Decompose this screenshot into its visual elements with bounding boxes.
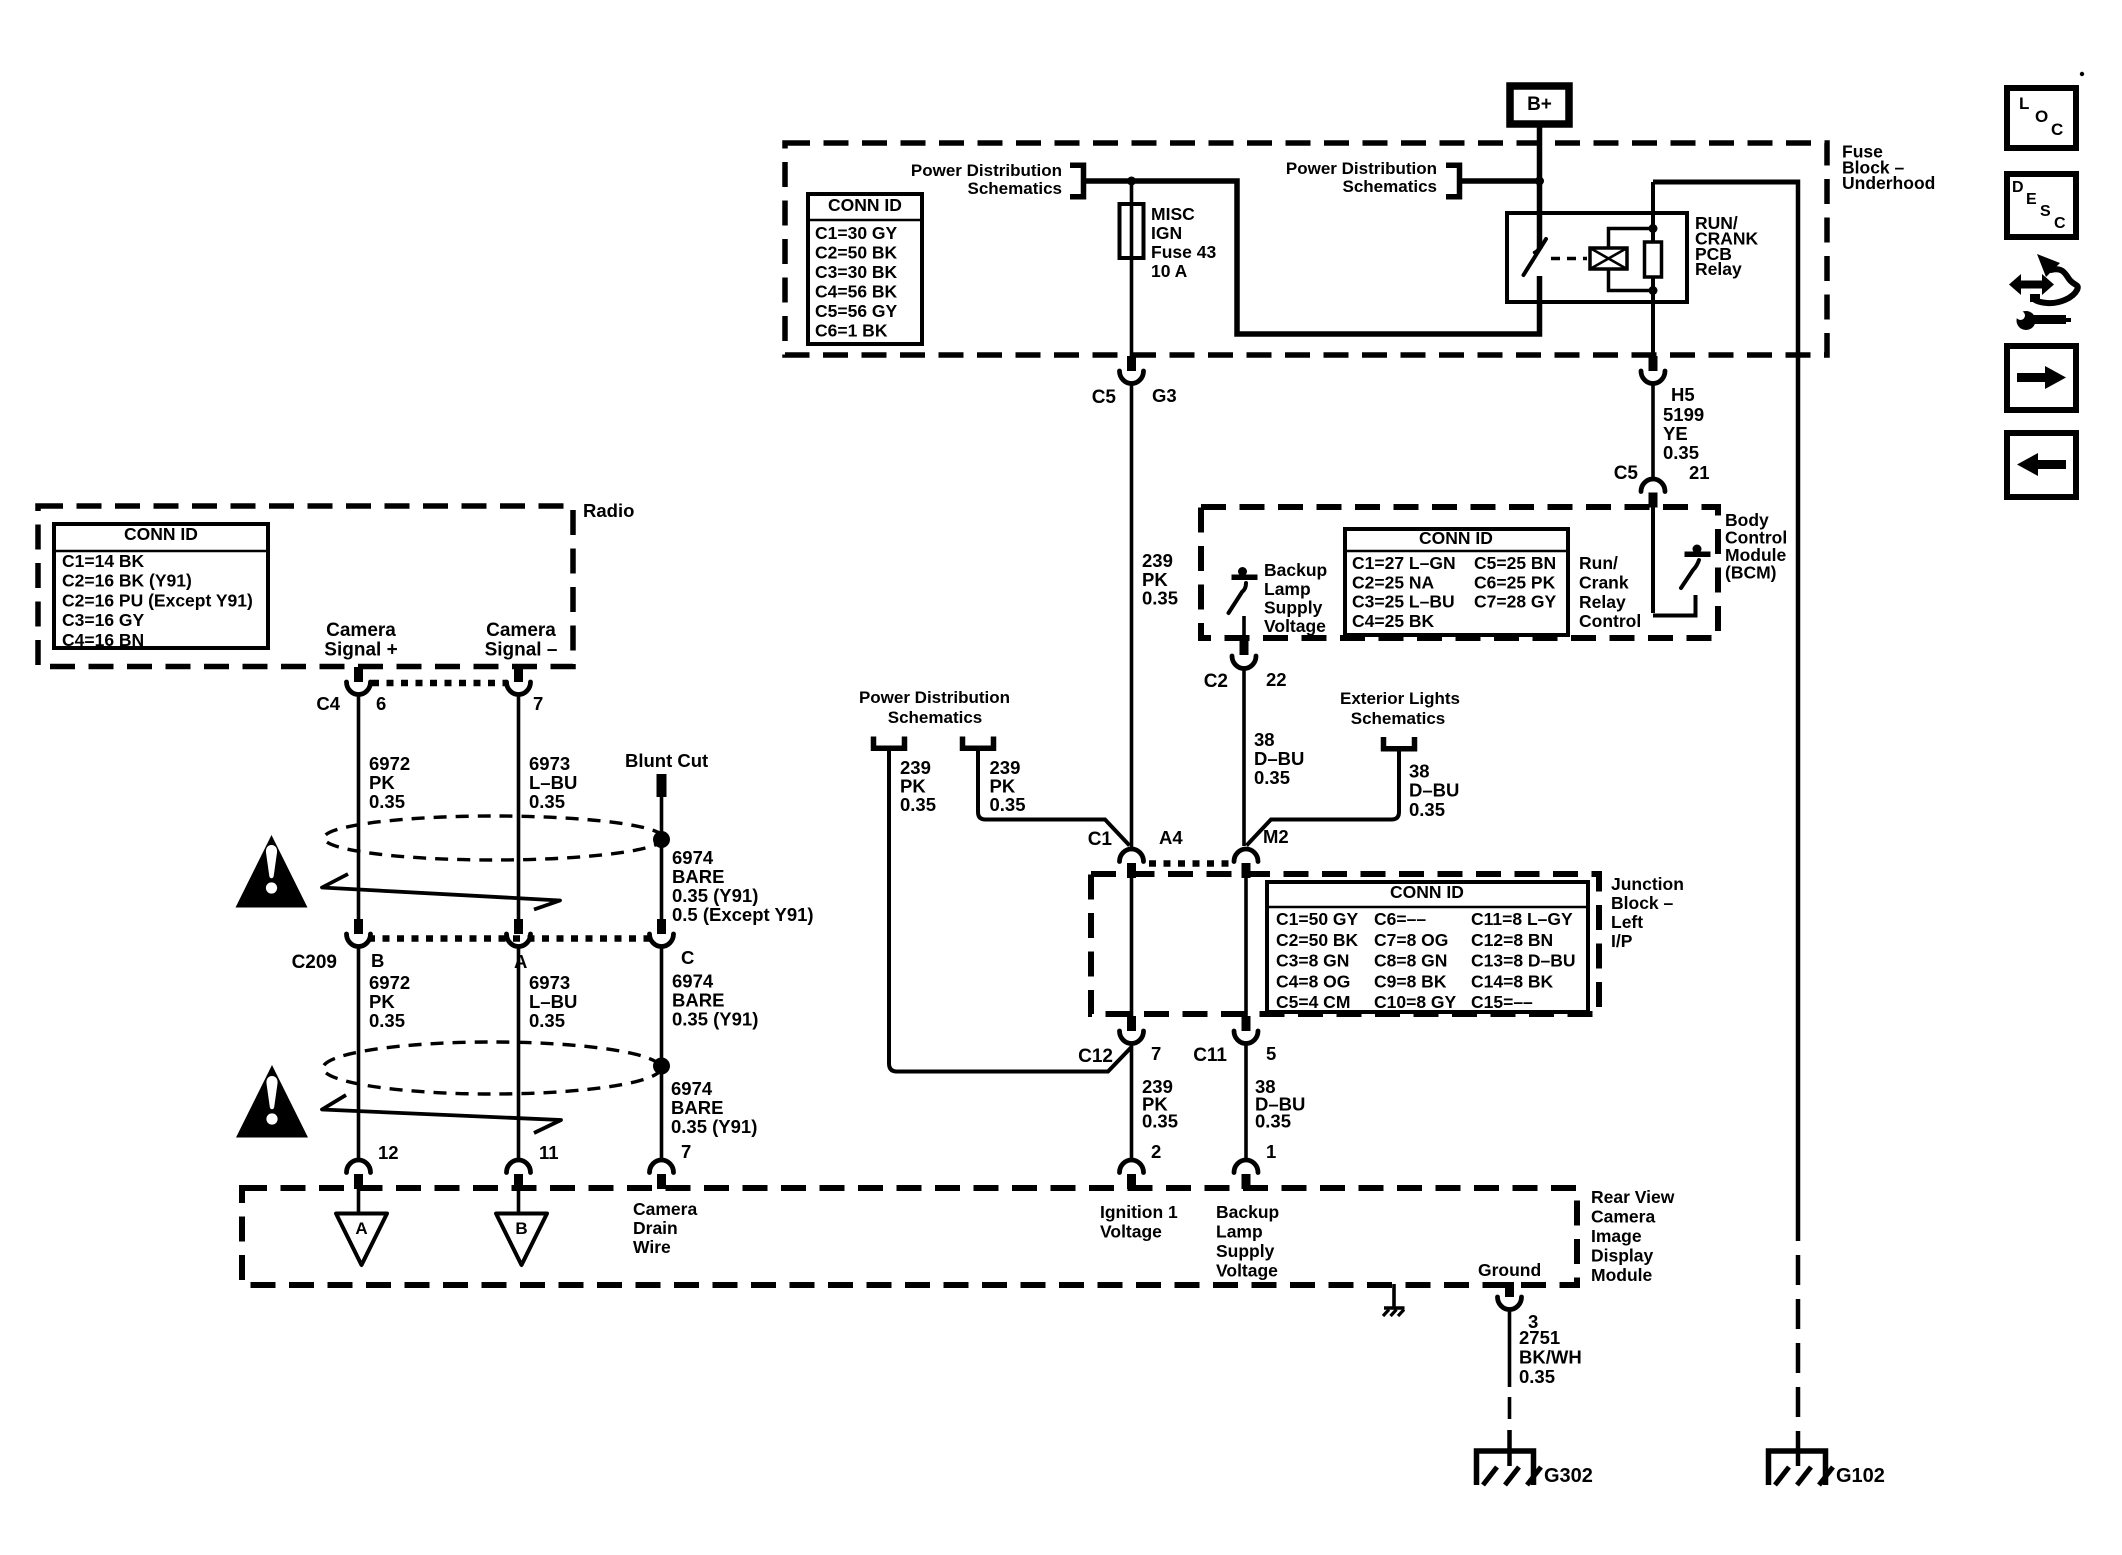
svg-text:L–BU: L–BU [529, 772, 577, 793]
component box Rear View Camera Image Display Module [242, 1188, 1577, 1285]
connector C11 5 (junction block to harness) [1193, 1016, 1276, 1066]
svg-text:C2=16 BK (Y91): C2=16 BK (Y91) [62, 571, 192, 591]
svg-text:G302: G302 [1544, 1465, 1593, 1487]
svg-text:C1=27 L–GN: C1=27 L–GN [1352, 553, 1456, 573]
svg-text:C2=25 NA: C2=25 NA [1352, 572, 1435, 592]
svg-text:C4: C4 [316, 693, 340, 714]
BCM run/crank relay control input terminal [1653, 507, 1696, 616]
svg-text:D–BU: D–BU [1254, 748, 1304, 769]
svg-text:PK: PK [369, 772, 395, 793]
svg-text:0.35 (Y91): 0.35 (Y91) [672, 885, 758, 906]
svg-text:Signal +: Signal + [324, 640, 397, 661]
wire 38 D-BU 0.35 backup lamp supply to display module [1246, 1043, 1305, 1162]
svg-text:Underhood: Underhood [1842, 173, 1935, 193]
svg-text:Power Distribution: Power Distribution [859, 688, 1010, 707]
twist arrow (upper) [322, 874, 560, 910]
svg-text:Voltage: Voltage [1264, 616, 1326, 636]
svg-text:11: 11 [539, 1142, 559, 1163]
svg-text:10 A: 10 A [1151, 261, 1188, 281]
svg-text:38: 38 [1254, 729, 1275, 750]
wire junction block A4 to C12 [1130, 874, 1134, 1018]
svg-text:Crank: Crank [1579, 573, 1629, 593]
svg-text:Wire: Wire [633, 1237, 671, 1257]
svg-text:C: C [681, 947, 694, 968]
svg-text:Display: Display [1591, 1246, 1654, 1266]
icon button LOC [2007, 88, 2076, 148]
ground G102 [1769, 1436, 1885, 1487]
svg-text:CONN ID: CONN ID [828, 195, 902, 215]
svg-text:Image: Image [1591, 1226, 1642, 1246]
shield ellipse (lower twisted pair) [323, 1042, 661, 1094]
svg-text:C7=8 OG: C7=8 OG [1374, 930, 1448, 950]
svg-text:7: 7 [533, 693, 543, 714]
wire 239 PK 0.35 ignition 1 voltage to display module [1132, 1043, 1179, 1162]
dotted connector body line C1-M2 [1149, 860, 1229, 867]
wire 5199 YE 0.35 run/crank relay control [1653, 383, 1704, 480]
svg-text:Module: Module [1591, 1265, 1653, 1285]
node triangle A [336, 1214, 387, 1266]
component box Radio [38, 506, 573, 667]
off-page reference Exterior Lights Schematics [1340, 689, 1460, 749]
warning triangle (upper) [236, 835, 308, 908]
svg-text:C1: C1 [1088, 829, 1113, 850]
svg-text:MISC: MISC [1151, 204, 1195, 224]
wire to triangle B [517, 1189, 521, 1214]
blunt cut drain wire stub [625, 750, 708, 797]
svg-text:C2=50 BK: C2=50 BK [815, 243, 898, 263]
svg-text:0.35: 0.35 [529, 1010, 565, 1031]
svg-text:C2: C2 [1204, 671, 1228, 692]
junction drain to shield (lower) [653, 1058, 670, 1075]
label backup lamp supply voltage [1216, 1202, 1279, 1281]
svg-text:C11=8 L–GY: C11=8 L–GY [1471, 909, 1573, 929]
svg-text:6974: 6974 [672, 971, 714, 992]
svg-text:C5=4 CM: C5=4 CM [1276, 992, 1350, 1012]
svg-text:C5: C5 [1614, 463, 1639, 484]
svg-text:Camera: Camera [326, 620, 396, 641]
svg-text:6973: 6973 [529, 972, 570, 993]
svg-text:C6=25 PK: C6=25 PK [1474, 572, 1556, 592]
svg-text:C13=8 D–BU: C13=8 D–BU [1471, 951, 1576, 971]
wire 239 PK 0.35 to connector C1 A4 [978, 749, 1130, 846]
twist arrow (lower) [322, 1095, 561, 1133]
svg-text:Power Distribution: Power Distribution [911, 161, 1062, 180]
svg-text:Camera: Camera [1591, 1207, 1655, 1227]
off-page reference Power Distribution Schematics (left) [911, 161, 1084, 198]
svg-text:0.35: 0.35 [1142, 588, 1178, 609]
svg-text:Voltage: Voltage [1216, 1261, 1278, 1281]
svg-text:A: A [355, 1219, 367, 1238]
svg-text:Left: Left [1611, 912, 1643, 932]
svg-text:C6=1 BK: C6=1 BK [815, 321, 888, 341]
conn id table of BCM [1345, 528, 1568, 635]
svg-text:C2=16 PU (Except Y91): C2=16 PU (Except Y91) [62, 590, 253, 610]
wire 6973 L-BU 0.35 camera signal - (lower) [519, 946, 578, 1161]
svg-text:Lamp: Lamp [1216, 1222, 1263, 1242]
svg-text:5: 5 [1266, 1043, 1276, 1064]
svg-text:B: B [515, 1219, 527, 1238]
svg-text:7: 7 [681, 1141, 691, 1162]
svg-text:Voltage: Voltage [1100, 1222, 1162, 1242]
svg-text:6973: 6973 [529, 753, 570, 774]
ground G302 [1477, 1451, 1593, 1487]
wire 6974 BARE drain (upper) [662, 797, 814, 925]
icon repair info (wrench and arrows) [2009, 254, 2078, 330]
svg-text:S: S [2040, 203, 2051, 220]
warning triangle (lower) [236, 1065, 308, 1138]
wire 6973 L-BU 0.35 camera signal - (upper) [519, 694, 578, 921]
label ignition 1 voltage [1100, 1202, 1178, 1242]
svg-text:Ground: Ground [1478, 1260, 1541, 1280]
svg-text:Ignition 1: Ignition 1 [1100, 1202, 1178, 1222]
svg-text:0.35: 0.35 [1142, 1111, 1178, 1132]
svg-text:L–BU: L–BU [529, 991, 577, 1012]
wire right-side bus down to G102 [1796, 180, 1801, 1242]
svg-text:Fuse 43: Fuse 43 [1151, 242, 1216, 262]
connector pin 11 (harness to display module) [507, 1142, 559, 1189]
wire 38 D-BU 0.35 backup lamp supply [1244, 668, 1304, 846]
svg-text:0.35: 0.35 [1663, 442, 1699, 463]
svg-text:Relay: Relay [1579, 592, 1626, 612]
conn id table of junction block [1267, 882, 1588, 1012]
svg-text:Radio: Radio [583, 500, 634, 521]
svg-text:C1=14 BK: C1=14 BK [62, 551, 145, 571]
svg-text:I/P: I/P [1611, 931, 1633, 951]
junction node B+ / run-crank feed [1535, 177, 1544, 186]
icon button forward arrow [2007, 346, 2076, 410]
component box Junction Block - Left I/P [1091, 874, 1599, 1014]
svg-text:C3=25 L–BU: C3=25 L–BU [1352, 592, 1455, 612]
svg-text:BARE: BARE [672, 866, 724, 887]
dotted connector body line C4 [372, 680, 506, 687]
svg-text:C4=8 OG: C4=8 OG [1276, 971, 1350, 991]
svg-text:7: 7 [1151, 1043, 1161, 1064]
svg-text:1: 1 [1266, 1141, 1276, 1162]
svg-text:BK/WH: BK/WH [1519, 1347, 1582, 1368]
svg-text:0.35 (Y91): 0.35 (Y91) [672, 1009, 758, 1030]
svg-text:12: 12 [378, 1142, 399, 1163]
connector H5 (fuse block to harness) [1641, 356, 1695, 405]
svg-text:6974: 6974 [672, 847, 714, 868]
wire 239 PK 0.35 to junction block C12 [889, 749, 1132, 1072]
svg-text:Relay: Relay [1695, 259, 1742, 279]
svg-text:Junction: Junction [1611, 874, 1684, 894]
svg-text:Exterior Lights: Exterior Lights [1340, 689, 1460, 708]
connector C209 C (inline) [650, 919, 695, 968]
connector pin 3 ground (display module to harness) [1498, 1282, 1539, 1332]
svg-text:C1=30 GY: C1=30 GY [815, 223, 898, 243]
svg-text:C14=8 BK: C14=8 BK [1471, 971, 1554, 991]
svg-text:G3: G3 [1152, 385, 1177, 406]
svg-text:Schematics: Schematics [968, 179, 1063, 198]
svg-text:C4=56 BK: C4=56 BK [815, 282, 898, 302]
wire 6972 PK 0.35 camera signal + (lower) [359, 946, 411, 1161]
svg-text:C4=16 BN: C4=16 BN [62, 630, 144, 650]
svg-text:6972: 6972 [369, 753, 410, 774]
wire fuse feed bus from left reference to relay switch [1084, 181, 1540, 334]
connector C209 B (inline) [292, 919, 385, 973]
svg-text:A: A [514, 951, 527, 972]
svg-text:239: 239 [1142, 550, 1173, 571]
svg-text:B+: B+ [1527, 94, 1552, 115]
wire from right reference to B+ node [1460, 178, 1540, 184]
svg-text:C8=8 GN: C8=8 GN [1374, 951, 1447, 971]
svg-text:Rear View: Rear View [1591, 1187, 1675, 1207]
svg-text:C6=––: C6=–– [1374, 909, 1426, 929]
svg-text:C: C [2051, 120, 2063, 139]
svg-text:2: 2 [1151, 1141, 1161, 1162]
shield ellipse (upper twisted pair) [324, 816, 664, 860]
svg-text:Power Distribution: Power Distribution [1286, 159, 1437, 178]
svg-text:C15=––: C15=–– [1471, 992, 1533, 1012]
svg-text:Camera: Camera [633, 1199, 697, 1219]
svg-text:C3=30 BK: C3=30 BK [815, 262, 898, 282]
svg-text:Drain: Drain [633, 1218, 678, 1238]
svg-text:Backup: Backup [1216, 1202, 1279, 1222]
connector C5 G3 (fuse block to harness) [1092, 356, 1177, 408]
svg-text:H5: H5 [1671, 384, 1695, 405]
svg-text:Supply: Supply [1216, 1241, 1275, 1261]
svg-text:2751: 2751 [1519, 1327, 1560, 1348]
icon button DESC [2007, 174, 2076, 237]
dotted connector body line C209 [368, 935, 651, 942]
svg-text:Schematics: Schematics [1351, 709, 1446, 728]
svg-text:Supply: Supply [1264, 598, 1323, 618]
BCM run/crank switch driver [1681, 545, 1711, 589]
svg-text:C3=16 GY: C3=16 GY [62, 610, 145, 630]
svg-text:Lamp: Lamp [1264, 579, 1311, 599]
svg-text:21: 21 [1689, 462, 1710, 483]
svg-text:E: E [2026, 191, 2037, 208]
svg-text:(BCM): (BCM) [1725, 563, 1777, 583]
svg-text:A4: A4 [1159, 827, 1183, 848]
svg-text:0.35: 0.35 [900, 794, 936, 815]
label camera drain wire [633, 1199, 697, 1257]
svg-text:BARE: BARE [671, 1097, 723, 1118]
connector C209 A (inline) [507, 919, 531, 972]
svg-text:6972: 6972 [369, 972, 410, 993]
component box Fuse Block - Underhood [785, 143, 1827, 355]
svg-text:C9=8 BK: C9=8 BK [1374, 971, 1447, 991]
svg-text:PK: PK [369, 991, 395, 1012]
svg-text:Signal –: Signal – [485, 640, 558, 661]
svg-text:M2: M2 [1263, 826, 1289, 847]
svg-text:Block –: Block – [1611, 893, 1674, 913]
connector C4 7 (radio to harness) [507, 667, 544, 714]
wire relay output to H5 [1651, 302, 1655, 357]
label camera signal - [485, 620, 558, 661]
svg-text:C12: C12 [1078, 1046, 1113, 1067]
svg-text:Control: Control [1579, 611, 1641, 631]
svg-text:0.5 (Except Y91): 0.5 (Except Y91) [672, 904, 814, 925]
connector C12 7 (junction block to harness) [1078, 1016, 1161, 1067]
off-page reference Power Distribution Schematics (right) [1286, 159, 1460, 197]
svg-text:Backup: Backup [1264, 560, 1327, 580]
connector C2 22 (BCM to harness) [1204, 640, 1287, 692]
relay RUN/CRANK PCB Relay [1507, 213, 1759, 302]
svg-text:YE: YE [1663, 423, 1688, 444]
junction drain to shield (upper) [653, 831, 670, 848]
svg-text:0.35: 0.35 [1409, 799, 1445, 820]
svg-text:CONN ID: CONN ID [124, 524, 198, 544]
svg-text:D–BU: D–BU [1409, 780, 1459, 801]
svg-text:C4=25 BK: C4=25 BK [1352, 611, 1435, 631]
fuse MISC IGN Fuse 43 10A [1120, 181, 1217, 356]
svg-text:CONN ID: CONN ID [1419, 528, 1493, 548]
svg-text:CONN ID: CONN ID [1390, 882, 1464, 902]
svg-text:C7=28 GY: C7=28 GY [1474, 592, 1557, 612]
svg-text:BARE: BARE [672, 990, 724, 1011]
svg-text:5199: 5199 [1663, 404, 1704, 425]
connector pin 7 drain (harness to display module) [650, 1141, 692, 1189]
wire junction block M2 to C11 [1244, 874, 1248, 1018]
svg-text:Camera: Camera [486, 620, 556, 641]
svg-text:0.35: 0.35 [369, 1010, 405, 1031]
chassis ground symbol inside display module [1383, 1284, 1405, 1316]
junction node at fuse top [1127, 177, 1136, 186]
svg-text:B: B [371, 950, 384, 971]
connector C1 A4 (harness to junction block) [1088, 827, 1184, 878]
svg-text:Schematics: Schematics [1343, 177, 1438, 196]
svg-text:0.35 (Y91): 0.35 (Y91) [671, 1116, 757, 1137]
component box Body Control Module (BCM) [1201, 507, 1718, 638]
svg-text:6: 6 [376, 693, 386, 714]
svg-text:IGN: IGN [1151, 223, 1182, 243]
stray printed dot top right [2080, 72, 2084, 76]
svg-text:L: L [2019, 94, 2029, 113]
power symbol B+ [1510, 86, 1569, 124]
svg-text:6974: 6974 [671, 1078, 713, 1099]
svg-text:O: O [2035, 107, 2048, 126]
wire 6972 PK 0.35 camera signal + (upper) [359, 694, 411, 921]
svg-text:0.35: 0.35 [990, 794, 1026, 815]
BCM backup lamp supply driver switch [1229, 567, 1258, 613]
wire relay coil to right-side bus [1651, 182, 1655, 242]
connector pin 12 (harness to display module) [347, 1142, 399, 1189]
svg-text:C3=8 GN: C3=8 GN [1276, 951, 1349, 971]
connector C5 21 (harness to BCM) [1614, 462, 1710, 508]
conn id table of radio [54, 524, 268, 650]
svg-text:0.35: 0.35 [1254, 767, 1290, 788]
wire 38 D-BU 0.35 from exterior lights reference to M2 [1247, 749, 1460, 846]
svg-text:C10=8 GY: C10=8 GY [1374, 992, 1457, 1012]
svg-text:0.35: 0.35 [1255, 1111, 1291, 1132]
wire 2751 BK/WH 0.35 ground [1510, 1309, 1582, 1466]
svg-text:0.35: 0.35 [529, 791, 565, 812]
svg-text:C209: C209 [292, 952, 337, 973]
svg-text:0.35: 0.35 [369, 791, 405, 812]
svg-text:C12=8 BN: C12=8 BN [1471, 930, 1553, 950]
svg-text:C: C [2054, 215, 2066, 232]
label camera signal + [324, 620, 397, 661]
connector pin 1 (harness to display module) [1234, 1160, 1258, 1189]
conn id table of fuse block [808, 194, 922, 344]
connector C4 6 (radio to harness) [316, 667, 386, 714]
connector pin 2 (harness to display module) [1120, 1160, 1144, 1189]
node triangle B [496, 1214, 547, 1266]
svg-text:Blunt Cut: Blunt Cut [625, 750, 708, 771]
off-page reference Power Distribution Schematics (lower left pair) [859, 688, 1010, 748]
svg-text:C2=50 BK: C2=50 BK [1276, 930, 1359, 950]
svg-text:C5: C5 [1092, 387, 1117, 408]
wire 239 PK 0.35 ignition feed [1132, 383, 1179, 848]
svg-text:Run/: Run/ [1579, 553, 1618, 573]
label drain wire below lower shield junction [671, 1078, 757, 1137]
svg-text:0.35: 0.35 [1519, 1366, 1555, 1387]
wire to triangle A [357, 1189, 361, 1214]
connector M2 (harness to junction block) [1234, 826, 1289, 878]
wire 6974 BARE drain (lower) [662, 946, 759, 1161]
svg-text:Schematics: Schematics [888, 708, 983, 727]
svg-text:C1=50 GY: C1=50 GY [1276, 909, 1359, 929]
svg-text:C5=56 GY: C5=56 GY [815, 301, 898, 321]
svg-text:D: D [2012, 179, 2024, 196]
svg-text:G102: G102 [1836, 1465, 1885, 1487]
icon button back arrow [2007, 433, 2076, 497]
wire B+ feed down into fuse block [1537, 126, 1543, 249]
wire backup lamp output to connector C2 [1242, 616, 1246, 641]
svg-text:C11: C11 [1193, 1045, 1227, 1066]
svg-text:C5=25 BN: C5=25 BN [1474, 553, 1556, 573]
svg-text:38: 38 [1409, 761, 1430, 782]
svg-text:22: 22 [1266, 669, 1287, 690]
